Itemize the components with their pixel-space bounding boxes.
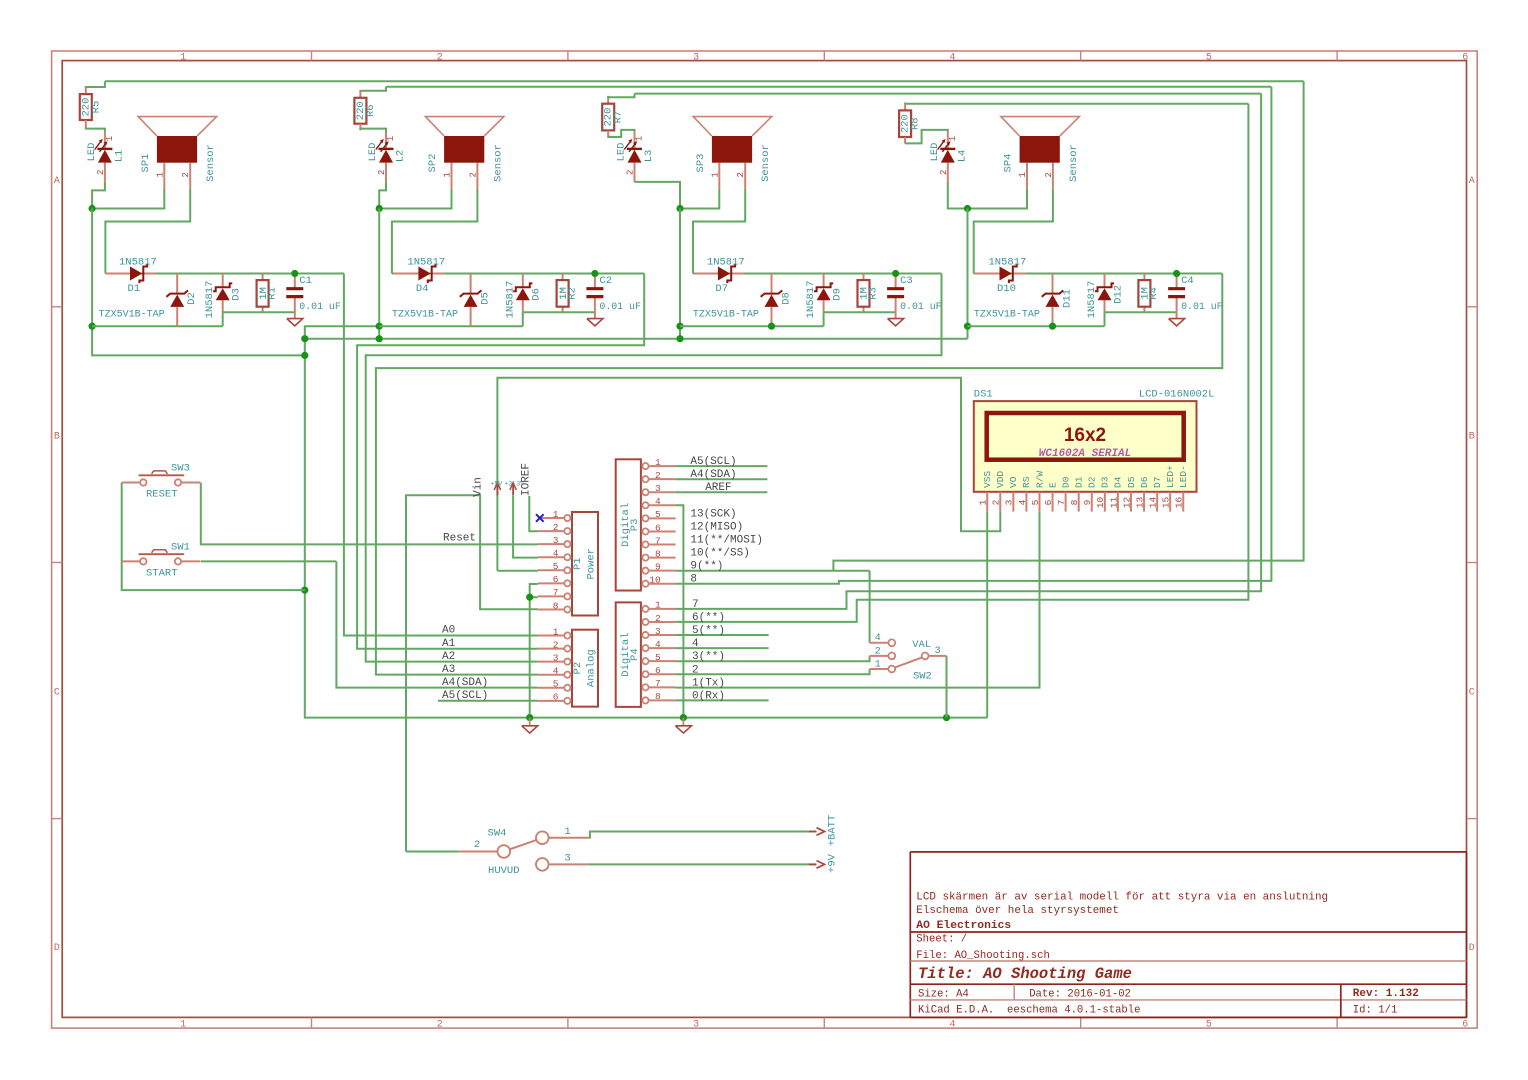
svg-text:TZX5V1B-TAP: TZX5V1B-TAP [974,310,1040,321]
svg-text:2: 2 [736,172,746,177]
svg-text:2: 2 [553,522,559,533]
svg-text:D8: D8 [781,292,793,305]
svg-text:A: A [54,176,60,187]
svg-text:2: 2 [437,1020,443,1031]
svg-text:A4(SDA): A4(SDA) [442,677,488,689]
svg-text:1N5817: 1N5817 [989,256,1027,268]
svg-text:File: AO_Shooting.sch: File: AO_Shooting.sch [916,950,1050,962]
svg-text:Sensor: Sensor [1068,144,1080,182]
svg-text:4: 4 [655,496,661,507]
svg-text:D10: D10 [997,283,1016,295]
svg-text:16x2: 16x2 [1064,425,1106,446]
svg-text:SW2: SW2 [913,670,932,682]
svg-text:5: 5 [553,561,559,572]
svg-text:D3: D3 [1100,476,1111,488]
svg-text:1N5817: 1N5817 [504,281,516,319]
svg-text:Rev: 1.132: Rev: 1.132 [1353,988,1419,1000]
svg-text:RESET: RESET [146,489,178,501]
svg-text:WC1602A SERIAL: WC1602A SERIAL [1039,448,1131,460]
svg-text:8: 8 [1069,499,1080,505]
svg-text:LED: LED [929,143,941,162]
svg-text:C: C [1469,687,1475,698]
svg-text:6: 6 [1462,53,1468,64]
svg-text:1: 1 [948,136,958,141]
svg-text:6: 6 [1043,499,1054,505]
svg-text:P2: P2 [572,662,584,675]
svg-text:6: 6 [1462,1020,1468,1031]
svg-text:8: 8 [655,691,661,702]
svg-text:R3: R3 [867,287,879,300]
svg-text:1: 1 [443,172,453,177]
svg-text:D6: D6 [531,288,543,301]
svg-text:D3: D3 [231,288,243,301]
svg-text:Vin: Vin [473,477,485,497]
svg-text:D4: D4 [1113,476,1124,488]
svg-text:8: 8 [553,600,559,611]
svg-text:8: 8 [690,574,697,586]
svg-text:R6: R6 [365,104,377,117]
svg-text:8: 8 [655,548,661,559]
svg-text:2: 2 [991,499,1002,505]
svg-text:TZX5V1B-TAP: TZX5V1B-TAP [693,310,759,321]
svg-text:P1: P1 [572,557,584,570]
svg-text:4: 4 [553,548,559,559]
svg-text:A0: A0 [442,625,455,637]
svg-text:1N5817: 1N5817 [707,256,745,268]
svg-text:C3: C3 [900,275,913,287]
svg-text:5: 5 [1030,499,1041,505]
svg-text:A1: A1 [442,638,456,650]
svg-text:16: 16 [1174,497,1185,509]
svg-text:Sheet: /: Sheet: / [916,933,967,945]
svg-text:7: 7 [553,587,559,598]
svg-text:1: 1 [553,626,559,637]
svg-text:Sensor: Sensor [205,144,217,182]
svg-text:1: 1 [655,600,661,611]
svg-text:+9V: +9V [827,853,839,873]
svg-text:A: A [1469,176,1475,187]
svg-text:15: 15 [1161,497,1172,509]
svg-text:LCD skärmen är av serial model: LCD skärmen är av serial modell för att … [916,892,1328,904]
svg-text:L3: L3 [643,150,655,163]
svg-text:6: 6 [553,692,559,703]
svg-text:12: 12 [1121,497,1132,509]
svg-text:1N5817: 1N5817 [119,256,157,268]
svg-text:D2: D2 [186,292,198,305]
svg-text:6: 6 [553,574,559,585]
svg-text:2: 2 [875,646,881,657]
svg-text:1: 1 [635,136,645,141]
svg-text:D11: D11 [1062,289,1074,308]
svg-text:SW3: SW3 [171,462,190,474]
svg-text:D1: D1 [128,283,141,295]
svg-text:2: 2 [939,170,949,175]
svg-text:A2: A2 [442,651,455,663]
svg-text:1N5817: 1N5817 [805,281,817,319]
svg-text:Date: 2016-01-02: Date: 2016-01-02 [1029,989,1131,1001]
svg-text:+BATT: +BATT [827,815,839,847]
svg-text:D5: D5 [480,292,492,305]
svg-text:D9: D9 [832,288,844,301]
svg-text:2: 2 [553,639,559,650]
svg-text:D2: D2 [1087,476,1098,488]
svg-text:AO Electronics: AO Electronics [916,920,1011,932]
svg-text:4: 4 [655,639,661,650]
svg-text:12(MISO): 12(MISO) [690,521,743,533]
svg-text:SP4: SP4 [1003,154,1015,173]
svg-text:7: 7 [655,535,661,546]
svg-text:D5: D5 [1126,476,1137,488]
svg-text:3: 3 [553,535,559,546]
svg-text:L4: L4 [957,150,969,163]
svg-text:D: D [54,943,60,954]
svg-text:R8: R8 [910,117,922,130]
svg-text:1: 1 [564,826,570,838]
svg-text:1: 1 [180,1020,186,1031]
svg-text:1: 1 [978,499,989,505]
svg-text:D7: D7 [715,283,728,295]
svg-text:2: 2 [626,170,636,175]
svg-text:LED+: LED+ [1165,465,1176,488]
svg-text:AREF: AREF [705,482,731,494]
svg-text:D1: D1 [1073,476,1084,488]
svg-text:1: 1 [180,53,186,64]
svg-text:7: 7 [692,599,699,611]
svg-text:2: 2 [655,613,661,624]
svg-text:10(**/SS): 10(**/SS) [690,548,749,560]
svg-text:LCD-016N002L: LCD-016N002L [1139,388,1215,400]
svg-text:L1: L1 [114,150,126,163]
svg-text:D6: D6 [1139,476,1150,488]
svg-text:1: 1 [655,457,661,468]
svg-text:1: 1 [386,136,396,141]
svg-text:7: 7 [655,678,661,689]
svg-text:0.01 uF: 0.01 uF [599,301,641,312]
svg-text:3: 3 [553,652,559,663]
svg-text:SW4: SW4 [488,827,507,839]
svg-text:6: 6 [655,522,661,533]
svg-text:A5(SCL): A5(SCL) [690,456,736,468]
svg-text:3: 3 [693,1020,699,1031]
svg-text:A5(SCL): A5(SCL) [442,690,488,702]
svg-text:11: 11 [1108,497,1119,509]
svg-text:SP2: SP2 [427,154,439,173]
svg-text:A3: A3 [442,664,455,676]
svg-text:3: 3 [1004,499,1015,505]
svg-text:2: 2 [96,170,106,175]
svg-text:P4: P4 [629,648,641,661]
svg-text:TZX5V1B-TAP: TZX5V1B-TAP [392,310,458,321]
svg-text:LED: LED [86,143,98,162]
svg-text:Reset: Reset [443,533,476,545]
svg-text:R1: R1 [266,287,278,300]
svg-text:D7: D7 [1152,477,1163,488]
svg-text:Analog: Analog [586,649,598,687]
svg-text:C1: C1 [299,275,312,287]
svg-text:+5V: +5V [491,481,503,488]
svg-text:R4: R4 [1148,287,1160,300]
svg-text:3: 3 [655,626,661,637]
svg-text:4: 4 [875,633,881,644]
svg-text:5: 5 [655,509,661,520]
svg-text:9(**): 9(**) [690,561,723,573]
svg-text:5: 5 [553,679,559,690]
svg-text:2: 2 [655,470,661,481]
svg-text:D4: D4 [416,283,429,295]
svg-text:10: 10 [649,575,661,586]
svg-text:HUVUD: HUVUD [488,865,520,877]
svg-text:3: 3 [935,646,941,657]
svg-text:Sensor: Sensor [492,144,504,182]
svg-text:P3: P3 [629,519,641,532]
svg-text:Elschema över hela styrsysteme: Elschema över hela styrsystemet [916,905,1119,917]
svg-text:1N5817: 1N5817 [1086,281,1098,319]
svg-text:14: 14 [1148,497,1159,509]
svg-text:11(**/MOSI): 11(**/MOSI) [690,535,763,547]
svg-text:1N5817: 1N5817 [407,256,445,268]
svg-text:C4: C4 [1181,275,1194,287]
svg-text:1: 1 [553,509,559,520]
svg-text:2: 2 [437,53,443,64]
svg-text:LED: LED [367,143,379,162]
svg-text:Power: Power [586,548,598,580]
svg-text:LED-: LED- [1178,465,1189,488]
svg-text:D12: D12 [1112,285,1124,304]
svg-text:C: C [54,687,60,698]
svg-text:5(**): 5(**) [692,625,725,637]
svg-text:0.01 uF: 0.01 uF [1181,301,1223,312]
svg-text:7: 7 [1056,500,1067,506]
svg-text:3(**): 3(**) [692,651,725,663]
svg-text:R2: R2 [566,287,578,300]
svg-text:R5: R5 [90,101,102,114]
svg-text:1: 1 [1018,172,1028,177]
svg-text:B: B [1469,432,1475,443]
svg-text:+3.3V: +3.3V [505,481,525,488]
svg-text:0(Rx): 0(Rx) [692,690,725,702]
svg-text:R7: R7 [613,111,625,124]
svg-text:1: 1 [710,172,720,177]
svg-text:1N5817: 1N5817 [204,281,216,319]
svg-text:10: 10 [1095,497,1106,509]
svg-text:Sensor: Sensor [760,144,772,182]
svg-text:1: 1 [875,659,881,670]
svg-text:KiCad E.D.A. eeschema 4.0.1-s: KiCad E.D.A. eeschema 4.0.1-stable [918,1005,1141,1017]
svg-text:VAL: VAL [912,639,931,651]
svg-text:VO: VO [1008,476,1019,488]
svg-text:9: 9 [1082,499,1093,505]
svg-text:1(Tx): 1(Tx) [692,677,725,689]
svg-text:2: 2 [692,664,699,676]
svg-text:VSS: VSS [982,471,993,488]
svg-text:4: 4 [1017,499,1028,505]
svg-text:1: 1 [155,172,165,177]
svg-text:L2: L2 [395,150,407,163]
svg-text:6(**): 6(**) [692,612,725,624]
svg-text:5: 5 [1206,1020,1212,1031]
svg-text:13(SCK): 13(SCK) [690,508,736,520]
svg-text:0.01 uF: 0.01 uF [299,301,341,312]
svg-text:A4(SDA): A4(SDA) [690,469,736,481]
svg-text:3: 3 [564,853,570,865]
svg-text:DS1: DS1 [974,388,993,400]
svg-text:2: 2 [474,839,480,851]
svg-text:SW1: SW1 [171,541,190,553]
svg-text:5: 5 [655,652,661,663]
svg-text:SP1: SP1 [140,154,152,173]
svg-text:Title: AO Shooting Game: Title: AO Shooting Game [918,965,1132,983]
svg-text:0.01 uF: 0.01 uF [900,301,942,312]
svg-text:B: B [54,432,60,443]
svg-text:6: 6 [655,665,661,676]
svg-text:5: 5 [1206,53,1212,64]
svg-text:C2: C2 [599,275,612,287]
svg-text:4: 4 [553,666,559,677]
svg-text:Id: 1/1: Id: 1/1 [1353,1005,1398,1017]
svg-text:RS: RS [1021,476,1032,488]
svg-text:VDD: VDD [995,471,1006,488]
svg-text:Size: A4: Size: A4 [918,989,969,1001]
svg-text:2: 2 [377,170,387,175]
svg-text:3: 3 [693,53,699,64]
svg-text:2: 2 [181,172,191,177]
svg-text:2: 2 [468,172,478,177]
svg-text:E: E [1047,482,1058,488]
svg-text:1: 1 [105,136,115,141]
svg-text:D0: D0 [1060,476,1071,488]
svg-text:TZX5V1B-TAP: TZX5V1B-TAP [99,310,165,321]
svg-text:R/W: R/W [1034,471,1045,488]
svg-text:2: 2 [1044,172,1054,177]
svg-text:4: 4 [949,1020,955,1031]
svg-text:4: 4 [692,638,699,650]
svg-text:4: 4 [949,53,955,64]
svg-text:SP3: SP3 [695,154,707,173]
svg-text:D: D [1469,943,1475,954]
svg-text:13: 13 [1134,497,1145,509]
svg-text:9: 9 [655,561,661,572]
svg-text:3: 3 [655,483,661,494]
svg-text:LED: LED [616,143,628,162]
svg-text:START: START [146,568,178,580]
svg-text:IOREF: IOREF [521,463,533,496]
